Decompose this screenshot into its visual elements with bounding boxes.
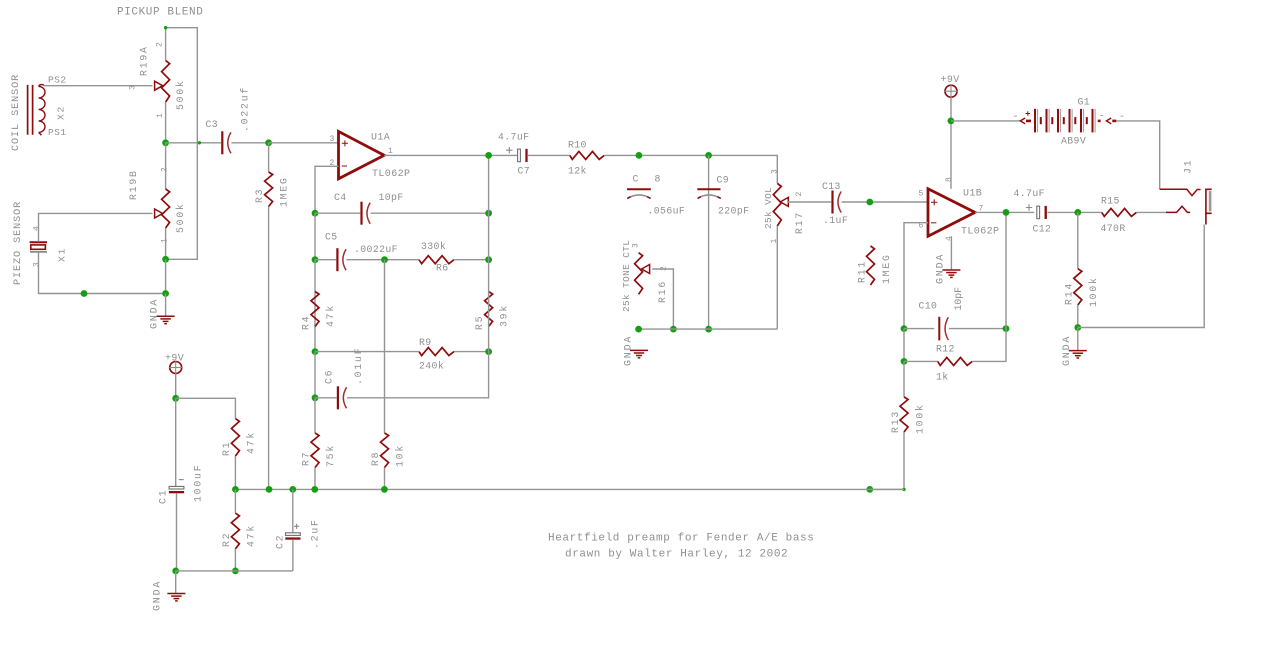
svg-text:U1B: U1B xyxy=(963,189,982,200)
op-amp U1B xyxy=(928,189,975,236)
wire tone ground rail xyxy=(639,328,778,330)
junction tone node C9 xyxy=(705,152,712,159)
svg-text:GNDA: GNDA xyxy=(936,253,947,284)
wire C9 branch xyxy=(708,155,710,329)
potentiometer R17 volume xyxy=(773,183,781,226)
resistor R8 xyxy=(381,433,389,468)
wire C7 to R10 xyxy=(527,154,570,156)
svg-text:R3: R3 xyxy=(254,188,265,203)
svg-text:3: 3 xyxy=(771,167,780,174)
battery G1 cells xyxy=(1035,109,1095,132)
svg-text:J1: J1 xyxy=(1183,159,1194,174)
svg-text:25k VOL: 25k VOL xyxy=(763,187,774,229)
svg-text:.01uF: .01uF xyxy=(353,347,364,385)
wire bias rail to R2 xyxy=(234,489,236,513)
potentiometer R16 tone xyxy=(635,253,643,295)
svg-text:10pF: 10pF xyxy=(379,192,404,203)
C8 arc red tips xyxy=(627,197,650,199)
svg-text:240k: 240k xyxy=(419,361,444,372)
inductor coil sensor X2 windings xyxy=(39,85,45,136)
wire row1 left to C4 xyxy=(315,212,360,214)
svg-text:PS1: PS1 xyxy=(48,127,66,138)
svg-text:R10: R10 xyxy=(568,140,587,151)
svg-text:C: C xyxy=(633,174,639,185)
svg-text:2: 2 xyxy=(795,190,804,197)
wire R19B pin1 down xyxy=(165,228,167,259)
junction row2 left xyxy=(312,256,319,263)
svg-text:C2: C2 xyxy=(275,534,286,549)
resistor R1 xyxy=(231,419,239,456)
wire C10 row right xyxy=(949,328,1006,330)
svg-text:PICKUP BLEND: PICKUP BLEND xyxy=(117,7,203,19)
svg-text:1k: 1k xyxy=(936,372,949,383)
ground GNDA tone area xyxy=(630,350,648,357)
svg-text:R2: R2 xyxy=(221,532,232,547)
svg-text:1: 1 xyxy=(388,147,393,156)
svg-text:C4: C4 xyxy=(334,192,347,203)
junction ground rail R2 xyxy=(232,568,239,575)
svg-text:47k: 47k xyxy=(246,431,257,454)
potentiometer R19B xyxy=(162,189,170,228)
svg-text:PIEZO SENSOR: PIEZO SENSOR xyxy=(13,201,24,285)
svg-text:100uF: 100uF xyxy=(193,464,204,502)
svg-text:-: - xyxy=(1013,112,1019,123)
wire R17 wiper to C13 xyxy=(788,201,831,203)
wire C3 to node B xyxy=(231,142,268,144)
svg-text:X1: X1 xyxy=(57,247,68,262)
wire left column row2-row3 xyxy=(314,260,316,352)
wire R13 column xyxy=(903,361,905,397)
wire mid column to R8 xyxy=(384,260,386,433)
resistor R9 xyxy=(419,348,454,356)
battery left plus mark xyxy=(1026,111,1031,116)
svg-text:1: 1 xyxy=(156,111,165,118)
svg-text:AB9V: AB9V xyxy=(1061,136,1086,147)
svg-text:470R: 470R xyxy=(1101,223,1126,234)
wire row3 left to R9 xyxy=(315,351,419,353)
svg-text:10k: 10k xyxy=(395,444,406,467)
wire piezo bottom to ground rail xyxy=(39,253,166,294)
junction ground node pickup xyxy=(162,290,169,297)
svg-text:.022uf: .022uf xyxy=(240,86,251,132)
capacitor C9 xyxy=(697,188,720,190)
svg-text:4: 4 xyxy=(33,224,42,231)
junction output divider xyxy=(1074,209,1081,216)
svg-text:R11: R11 xyxy=(857,260,868,283)
C9 arc red tips xyxy=(698,197,721,199)
battery G1 left connector xyxy=(1020,118,1025,124)
svg-text:47k: 47k xyxy=(246,524,257,547)
svg-text:1MEG: 1MEG xyxy=(881,253,892,284)
wire +9V to U1B pin8 xyxy=(950,97,952,189)
junction tone wiper ground xyxy=(670,326,677,333)
svg-text:5: 5 xyxy=(919,190,924,199)
svg-text:3: 3 xyxy=(632,241,641,248)
junction output ground xyxy=(1074,324,1081,331)
svg-text:.0022uF: .0022uF xyxy=(354,244,398,255)
wire piezo top to R19B wiper xyxy=(39,213,153,241)
junction tone ground left xyxy=(635,326,642,333)
svg-text:220pF: 220pF xyxy=(718,206,749,217)
svg-text:.056uF: .056uF xyxy=(648,206,686,217)
C12 plus sign xyxy=(1026,204,1032,210)
wire R13 to bias rail xyxy=(870,432,904,489)
junction C9 at ground rail xyxy=(705,326,712,333)
wire +9V left down xyxy=(175,374,177,399)
svg-text:U1A: U1A xyxy=(371,133,390,144)
wire R14 to ground rail xyxy=(1077,305,1079,328)
op-amp U1A xyxy=(339,131,385,178)
+9V supply right xyxy=(945,85,957,97)
svg-text:3: 3 xyxy=(330,135,335,144)
wire U1B pin4 to ground xyxy=(950,236,952,269)
wire left column to R7 xyxy=(314,398,316,433)
svg-text:R4: R4 xyxy=(301,315,312,330)
svg-text:1MEG: 1MEG xyxy=(279,176,290,207)
junction bias rail R8 xyxy=(381,486,388,493)
wire R19A pin2 loop to R19B pin1 xyxy=(166,28,198,260)
U1B plus mark xyxy=(931,199,937,205)
wire R12 row left xyxy=(904,360,938,362)
svg-text:8: 8 xyxy=(945,175,954,182)
resistor R4 xyxy=(311,292,319,327)
svg-text:2: 2 xyxy=(161,165,170,172)
U1A minus mark xyxy=(342,165,347,167)
capacitor C1 xyxy=(169,486,184,489)
wire GNDA left stub xyxy=(175,571,177,593)
wire U1B output xyxy=(975,211,1034,213)
wire C12 to R15 xyxy=(1048,211,1102,213)
junction R11 at bias rail xyxy=(866,486,873,493)
junction bias rail C2 xyxy=(289,486,296,493)
wire right column up to output xyxy=(488,155,490,351)
wire U1A -in to feedback column xyxy=(315,166,339,213)
svg-text:10pF: 10pF xyxy=(953,287,964,311)
junction +9V battery tap xyxy=(948,118,955,125)
svg-text:500k: 500k xyxy=(175,202,186,233)
capacitor C5 xyxy=(336,248,338,271)
svg-text:25k TONE CTL: 25k TONE CTL xyxy=(621,240,632,312)
+9V supply left xyxy=(170,362,182,374)
svg-text:R19A: R19A xyxy=(139,45,150,76)
svg-text:.2uF: .2uF xyxy=(310,518,321,549)
piezo sensor X1 xyxy=(30,241,47,243)
svg-text:4.7uF: 4.7uF xyxy=(1014,188,1045,199)
wire R12 row right and up xyxy=(972,212,1006,361)
wire R10 to tone node xyxy=(604,155,777,183)
svg-text:drawn by Walter Harley, 12 200: drawn by Walter Harley, 12 2002 xyxy=(565,549,788,561)
wire ground rail to jack sleeve xyxy=(1078,225,1204,328)
svg-text:G1: G1 xyxy=(1078,97,1091,108)
C7 plus sign xyxy=(506,147,512,153)
junction U1B out feedback tap xyxy=(1003,209,1010,216)
svg-text:GNDA: GNDA xyxy=(150,298,161,329)
wire -in column to R12 row xyxy=(903,329,905,362)
junction U1A out / feedback xyxy=(485,152,492,159)
svg-text:100k: 100k xyxy=(915,403,926,434)
svg-text:C13: C13 xyxy=(822,181,841,192)
svg-text:R5: R5 xyxy=(474,315,485,330)
svg-text:C7: C7 xyxy=(518,166,531,177)
C1 plus mark xyxy=(179,479,184,481)
capacitor C10 xyxy=(938,317,940,341)
wire R2 to ground rail xyxy=(234,549,236,571)
resistor R10 xyxy=(570,151,604,159)
wire node B to R3 xyxy=(268,143,270,172)
wire R16 wiper to ground rail xyxy=(652,269,673,329)
svg-text:C12: C12 xyxy=(1033,224,1052,235)
ground GNDA U1B xyxy=(942,270,960,277)
svg-text:C6: C6 xyxy=(324,369,335,384)
wire R8 to bias rail xyxy=(384,468,386,490)
ground GNDA left psu xyxy=(167,594,185,601)
capacitor C4 xyxy=(360,202,362,225)
wire C6 to right column xyxy=(347,352,489,398)
capacitor C7 xyxy=(518,149,521,162)
wire stub to GNDA pickup xyxy=(165,294,167,316)
wire +9V to C1 xyxy=(175,398,177,486)
junction row3 left xyxy=(312,348,319,355)
wire left column row3-row4 xyxy=(314,352,316,398)
svg-text:X2: X2 xyxy=(56,105,67,120)
svg-text:12k: 12k xyxy=(568,166,587,177)
wire R6 to row2 right xyxy=(454,259,489,261)
resistor R15 xyxy=(1102,208,1137,216)
svg-text:C5: C5 xyxy=(325,232,338,243)
svg-text:TL062P: TL062P xyxy=(372,169,410,180)
junction R19A pin2 corner xyxy=(164,26,167,29)
C2 plus sign xyxy=(294,524,299,529)
junction blend return crossing xyxy=(198,141,201,144)
wire row2 left to C5 xyxy=(315,259,336,261)
junction node A (blend output) xyxy=(162,139,169,146)
svg-text:PS2: PS2 xyxy=(48,75,66,86)
wire node A to C3 xyxy=(166,142,221,144)
wire row4 left to C6 xyxy=(315,397,337,399)
wire coil PS2 to R19A wiper xyxy=(44,85,153,87)
wire battery to jack ring xyxy=(1117,121,1160,189)
svg-text:47k: 47k xyxy=(325,304,336,327)
wire +9V to R1 xyxy=(176,398,236,418)
wire C1 to ground rail xyxy=(176,493,178,571)
junction ground rail C1 xyxy=(172,568,179,575)
wire R1 to bias rail xyxy=(234,456,236,489)
wire R14 ground stub xyxy=(1077,328,1079,351)
junction bias rail R1/R2 xyxy=(232,486,239,493)
U1A plus mark xyxy=(342,140,348,146)
svg-text:39k: 39k xyxy=(499,304,510,327)
junction C10 row right xyxy=(1003,325,1010,332)
resistor R11 xyxy=(867,246,875,285)
junction U1B +in node xyxy=(866,199,873,206)
capacitor C13 xyxy=(831,191,833,214)
capacitor C3 xyxy=(221,131,223,154)
junction tone node C8 xyxy=(636,152,643,159)
wire R19A pin1 to node A xyxy=(165,102,167,143)
svg-text:.1uF: .1uF xyxy=(823,215,848,226)
wire R19B pin1 to ground xyxy=(165,259,167,293)
inductor coil sensor X2 core xyxy=(28,85,33,135)
junction row4 left xyxy=(312,394,319,401)
svg-text:+9V: +9V xyxy=(941,75,960,86)
svg-text:R8: R8 xyxy=(370,451,381,466)
svg-text:500k: 500k xyxy=(175,79,186,110)
wire divider to R14 xyxy=(1077,212,1079,268)
U1B minus mark xyxy=(931,222,936,224)
wire U1A output xyxy=(384,154,517,156)
svg-text:4.7uF: 4.7uF xyxy=(498,132,529,143)
svg-text:2: 2 xyxy=(660,264,669,271)
svg-text:GNDA: GNDA xyxy=(1062,335,1073,366)
battery G1 right connector xyxy=(1098,120,1101,123)
svg-text:+9V: +9V xyxy=(165,354,184,365)
svg-text:C3: C3 xyxy=(206,119,219,130)
svg-text:Heartfield preamp for Fender A: Heartfield preamp for Fender A/E bass xyxy=(548,533,814,545)
wire ground rail left xyxy=(176,570,293,572)
svg-text:R7: R7 xyxy=(301,451,312,466)
svg-text:R16: R16 xyxy=(657,280,668,303)
capacitor C12 xyxy=(1037,206,1040,219)
wire R17 bottom to ground rail xyxy=(776,226,778,329)
resistor R12 xyxy=(938,357,973,365)
ground GNDA pickup area xyxy=(157,316,175,323)
junction R19B pin1/return xyxy=(162,256,169,263)
wire R7 to bias rail xyxy=(314,468,316,490)
resistor R3 xyxy=(265,172,273,207)
svg-text:3: 3 xyxy=(129,83,138,90)
svg-text:GNDA: GNDA xyxy=(624,335,635,366)
junction C10 row left xyxy=(901,325,908,332)
resistor R5 xyxy=(485,292,493,327)
wire C5 to R6 xyxy=(346,259,419,261)
wire left column row1-row2 xyxy=(314,213,316,260)
resistor R7 xyxy=(311,433,319,468)
svg-text:R17: R17 xyxy=(794,211,805,234)
junction row2 mid xyxy=(381,256,388,263)
svg-text:-: - xyxy=(1099,112,1105,123)
junction piezo/coil ground xyxy=(81,290,88,297)
potentiometer R19A xyxy=(162,61,170,102)
svg-text:C9: C9 xyxy=(717,175,730,186)
wire C4 to row1 right xyxy=(371,212,489,214)
wire bias rail (half supply) xyxy=(235,488,904,490)
svg-text:R19B: R19B xyxy=(128,169,139,200)
wire node B to U1A +in xyxy=(269,142,339,144)
junction row3 right xyxy=(485,348,492,355)
junction node B (U1A +in) xyxy=(265,139,272,146)
svg-text:C10: C10 xyxy=(919,301,938,312)
capacitor C6 xyxy=(337,386,339,409)
svg-text:8: 8 xyxy=(655,174,661,185)
svg-text:4: 4 xyxy=(945,234,954,241)
junction bias rail R3 xyxy=(266,486,273,493)
wire R15 to jack tip xyxy=(1136,211,1166,213)
svg-text:C1: C1 xyxy=(158,489,169,504)
junction R13 rail corner xyxy=(902,488,905,491)
capacitor C8 xyxy=(627,188,651,190)
svg-text:75k: 75k xyxy=(325,444,336,467)
svg-text:R1: R1 xyxy=(221,441,232,456)
svg-text:GNDA: GNDA xyxy=(153,580,164,611)
wire node A to R19B pin2 xyxy=(165,143,167,189)
svg-text:R6: R6 xyxy=(436,263,449,274)
jack J1 body xyxy=(1206,189,1212,224)
wire bias rail to C2 xyxy=(292,489,294,532)
jack J1 tip contact xyxy=(1166,206,1190,212)
capacitor C2 xyxy=(286,533,301,536)
junction row1 left xyxy=(312,210,319,217)
svg-text:330k: 330k xyxy=(421,241,446,252)
jack J1 ring contact xyxy=(1160,189,1201,195)
svg-text:2: 2 xyxy=(156,40,165,47)
resistor R6 xyxy=(419,256,454,264)
wire R3 to bias rail xyxy=(268,207,270,490)
svg-text:100k: 100k xyxy=(1088,276,1099,307)
wire R9 to row3 right xyxy=(454,351,489,353)
svg-text:3: 3 xyxy=(33,260,42,267)
svg-text:R12: R12 xyxy=(936,344,955,355)
wire +9V to battery xyxy=(951,120,1020,122)
svg-text:TL062P: TL062P xyxy=(961,227,999,238)
svg-text:R14: R14 xyxy=(1064,282,1075,305)
wire C10 row left xyxy=(904,328,934,330)
junction row1 right xyxy=(485,210,492,217)
wire C2 to ground rail xyxy=(292,540,294,571)
resistor R2 xyxy=(231,513,239,549)
resistor R14 xyxy=(1074,269,1082,305)
resistor R13 xyxy=(900,397,908,432)
svg-text:R13: R13 xyxy=(890,410,901,433)
junction bias rail R7 xyxy=(311,486,318,493)
junction row2 right xyxy=(485,256,492,263)
svg-text:COIL SENSOR: COIL SENSOR xyxy=(11,74,22,151)
svg-text:R15: R15 xyxy=(1101,196,1120,207)
svg-text:R9: R9 xyxy=(419,337,432,348)
wire U1B -in column xyxy=(904,223,928,329)
wire C13 to U1B +in xyxy=(842,201,928,203)
junction R12 row left xyxy=(901,358,908,365)
ground GNDA output xyxy=(1069,351,1087,358)
junction +9V left xyxy=(172,395,179,402)
